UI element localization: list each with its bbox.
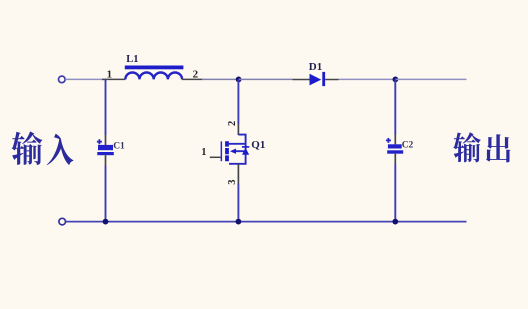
svg-text:3: 3	[227, 180, 238, 185]
pin number 3 (Q1 source, rotated)	[227, 180, 238, 185]
node IN+ input terminal	[59, 76, 66, 83]
label D1	[309, 61, 322, 73]
svg-text:L1: L1	[126, 54, 138, 65]
wire C2 top (node C down)	[394, 79, 396, 134]
pin Q1.2 drain stub	[237, 124, 239, 135]
capacitor C2 bottom plate	[387, 150, 403, 153]
svg-text:C1: C1	[113, 141, 125, 151]
diode D1 triangle	[310, 74, 322, 86]
pin Q1.1 gate stub	[210, 156, 221, 158]
pin C2.2 stub	[394, 154, 396, 164]
wire C1 bottom to bottom rail	[105, 166, 107, 222]
pin number 2 (Q1 drain, rotated)	[227, 121, 238, 126]
transistor Q1 body-diode bar	[242, 146, 249, 148]
wire bottom rail	[66, 221, 467, 223]
wire C1 top (node A down)	[105, 79, 107, 135]
svg-text:1: 1	[201, 147, 206, 158]
capacitor C1 plus mark	[97, 139, 102, 144]
capacitor C1 bottom plate	[97, 152, 114, 155]
transistor Q1 body-diode triangle	[242, 148, 249, 155]
wire top rail: L1 to node B	[202, 78, 238, 80]
junction node C (D1 / C2 / output)	[393, 77, 399, 83]
pin L1.1 (black stub)	[106, 78, 126, 80]
junction node F (C2 / bottom rail)	[392, 219, 398, 225]
pin Q1.3 source stub	[237, 164, 239, 184]
svg-text:1: 1	[107, 68, 113, 80]
inductor L1 core bar	[125, 66, 184, 70]
capacitor C2 plus mark	[386, 138, 391, 143]
pin D1 cathode stub	[325, 79, 338, 81]
junction node D (C1 / bottom rail)	[103, 219, 109, 225]
label Q1	[251, 139, 265, 151]
wire top rail: terminal to node A	[65, 78, 105, 80]
transistor Q1 bulk arrow	[230, 149, 236, 154]
node A (junction of L1 pin1 / C1)	[102, 78, 106, 80]
inductor L1 coil	[125, 72, 182, 79]
junction node E (Q1 source / bottom rail)	[236, 219, 242, 225]
transistor Q1 channel bar	[225, 141, 229, 161]
transistor Q1 internal wiring	[229, 135, 246, 164]
svg-text:2: 2	[227, 121, 238, 126]
wire Q1 drain (node B down)	[237, 79, 239, 124]
label L1	[126, 54, 138, 65]
wire Q1 source to bottom rail	[237, 184, 239, 222]
junction node B (L1 / Q1 drain)	[236, 77, 242, 83]
label C2	[402, 140, 414, 150]
wire C2 bottom to bottom rail	[394, 164, 396, 222]
wire top rail: node C to output	[395, 78, 466, 80]
svg-text:Q1: Q1	[251, 139, 265, 151]
label C1	[113, 141, 125, 151]
wire top rail: node B to D1 anode	[239, 78, 293, 80]
pin number 1 (L1 pin 1)	[107, 68, 113, 80]
svg-text:C2: C2	[402, 140, 414, 150]
capacitor C1 top plate	[98, 145, 113, 150]
pin C2.1 stub	[394, 135, 396, 145]
pin D1 anode stub	[293, 79, 310, 81]
transistor Q1 gate bar	[221, 141, 223, 161]
svg-text:D1: D1	[309, 61, 322, 73]
svg-text:2: 2	[193, 68, 199, 80]
diode D1 cathode bar	[322, 72, 325, 86]
label output text 出	[486, 134, 510, 162]
wire top rail: D1 to node C	[339, 78, 396, 80]
label output text 输	[453, 132, 480, 162]
capacitor C2 top plate	[388, 144, 402, 148]
pin number 1 (Q1 gate)	[201, 147, 206, 158]
pin C1.2 stub	[105, 155, 107, 165]
pin L1.2 (black stub)	[182, 78, 202, 80]
node IN- input terminal	[59, 218, 66, 225]
pin number 2 (L1 pin 2)	[193, 68, 199, 80]
pin C1.1 stub	[105, 135, 107, 145]
label input text 入	[47, 134, 74, 166]
label input text 输	[12, 131, 43, 165]
